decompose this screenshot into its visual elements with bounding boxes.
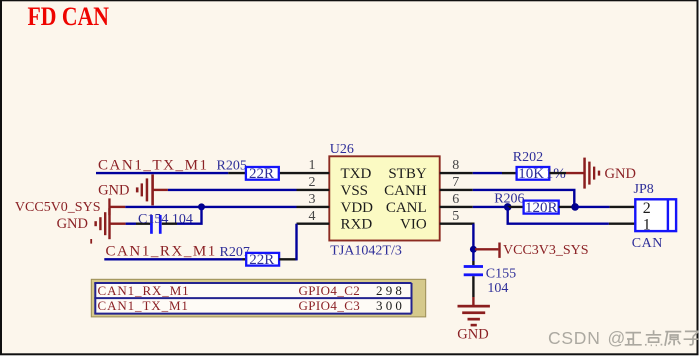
wire VCC5V0_SYS to VDD (red part) xyxy=(110,206,125,208)
svg-text:VSS: VSS xyxy=(341,183,369,199)
svg-text:2: 2 xyxy=(309,175,316,190)
watermark glyph yuan xyxy=(665,332,681,346)
svg-text:CSDN: CSDN xyxy=(548,328,601,348)
wire GND to C154 (blue part) xyxy=(126,222,136,224)
R206 right lead xyxy=(559,206,575,208)
R202 left lead xyxy=(502,172,517,174)
JP8 pin 1 stub xyxy=(609,222,635,224)
wire STBY to R202 (blue part) xyxy=(473,172,502,174)
svg-text:GND: GND xyxy=(605,166,636,182)
resistor R207 body xyxy=(246,253,279,266)
svg-text:FD CAN: FD CAN xyxy=(28,2,110,31)
svg-text:VCC5V0_SYS: VCC5V0_SYS xyxy=(15,200,101,215)
svg-text:CAN1_RX_M1: CAN1_RX_M1 xyxy=(106,243,217,259)
power port VCC3V3_SYS bar xyxy=(498,243,500,258)
pin 5 stub xyxy=(440,222,475,224)
wire C155 to GND (red part) xyxy=(472,297,474,305)
R202 right lead xyxy=(549,172,566,174)
R206 left lead xyxy=(508,206,524,208)
connector JP8 body xyxy=(635,199,676,231)
svg-text:5: 5 xyxy=(452,209,459,224)
wire junction down to C155 xyxy=(472,249,474,261)
pin table white rows xyxy=(95,283,411,314)
svg-text:1: 1 xyxy=(643,217,651,234)
pin 7 stub xyxy=(440,189,473,191)
capacitor C154 right lead xyxy=(162,222,177,224)
svg-text:CAN1_RX_M1: CAN1_RX_M1 xyxy=(98,283,190,298)
wire CANL down and right to JP8 pin1 xyxy=(508,207,609,224)
R205 left lead xyxy=(228,172,246,174)
watermark glyph dian xyxy=(645,330,662,345)
watermark glyph zi xyxy=(684,331,699,345)
wire R207 up to RXD pin4 xyxy=(295,224,297,261)
svg-text:2: 2 xyxy=(643,200,651,217)
ground symbol GND (C154) xyxy=(94,208,110,239)
wire VIO down to junction xyxy=(472,224,474,250)
wire R202 to GND (red part) xyxy=(566,172,584,174)
power port VCC5V0_SYS bar xyxy=(108,198,110,215)
svg-text:4: 4 xyxy=(309,209,316,224)
svg-text:104: 104 xyxy=(487,281,508,296)
R207 right lead xyxy=(279,258,296,260)
svg-text:10K: 10K xyxy=(518,166,544,182)
op-amp U26 body (TJA1042T/3 transceiver) xyxy=(329,156,439,240)
resistor R202 body xyxy=(517,167,550,180)
resistor R206 body xyxy=(524,201,559,214)
svg-text:8: 8 xyxy=(452,158,459,173)
ground symbol GND (R202) xyxy=(583,158,600,189)
svg-text:STBY: STBY xyxy=(388,166,427,182)
svg-text:22R: 22R xyxy=(249,252,274,268)
svg-text:U26: U26 xyxy=(330,142,354,157)
svg-text:GPIO4_C2: GPIO4_C2 xyxy=(299,283,361,298)
capacitor C155 bottom lead xyxy=(472,276,474,297)
svg-text:GND: GND xyxy=(98,183,129,199)
svg-text:VCC3V3_SYS: VCC3V3_SYS xyxy=(503,243,589,258)
node junction CANL / R206 left xyxy=(504,203,512,211)
wire CAN1_TX_M1 to R205 xyxy=(96,172,228,174)
pin 2 stub xyxy=(297,189,330,191)
svg-text:C155: C155 xyxy=(486,267,516,282)
pin table border lines xyxy=(94,283,411,314)
svg-text:120R: 120R xyxy=(525,200,558,216)
wire CANL to junction xyxy=(473,206,508,208)
wire GND to VSS (red part) xyxy=(153,189,168,191)
node junction on VDD net xyxy=(198,203,205,210)
pin 6 stub xyxy=(440,206,473,208)
svg-text:TXD: TXD xyxy=(341,166,372,182)
svg-text:22R: 22R xyxy=(249,166,274,182)
svg-text:VDD: VDD xyxy=(341,200,374,216)
wire GND to VSS (blue part) xyxy=(168,189,297,191)
stray tick mark xyxy=(90,239,92,244)
R207 left lead xyxy=(243,258,247,260)
svg-text:1: 1 xyxy=(309,158,316,173)
wire VCC5V0_SYS to VDD (blue part) xyxy=(125,206,296,208)
wire CAN1_RX_M1 to R207 xyxy=(104,258,242,260)
capacitor C155 top lead xyxy=(472,261,474,265)
pin 1 stub xyxy=(279,172,330,174)
wire C154 to VDD junction xyxy=(177,206,202,224)
capacitor C155 plates xyxy=(464,265,483,276)
svg-text:JP8: JP8 xyxy=(634,182,654,197)
svg-text:3: 3 xyxy=(309,192,316,207)
node junction VIO net xyxy=(470,246,477,253)
pin 4 stub xyxy=(297,222,330,224)
ground symbol GND (C155) xyxy=(458,305,490,327)
capacitor C154 plates xyxy=(150,215,161,234)
watermark glyph zheng xyxy=(625,333,642,345)
svg-text:6: 6 xyxy=(452,192,459,207)
wire CANH right and down xyxy=(473,190,575,207)
wire GND to C154 (red part) xyxy=(110,222,126,224)
svg-text:CAN1_TX_M1: CAN1_TX_M1 xyxy=(98,157,209,173)
JP8 pin 2 stub xyxy=(610,206,636,208)
svg-text:GND: GND xyxy=(57,216,88,232)
pin table shadow box xyxy=(91,279,425,317)
pin 3 stub xyxy=(297,206,330,208)
resistor R205 body xyxy=(246,167,279,180)
svg-text:300: 300 xyxy=(376,298,405,313)
node junction CANH / R206 right xyxy=(571,203,579,211)
svg-text:GPIO4_C3: GPIO4_C3 xyxy=(299,298,361,313)
svg-text:R202: R202 xyxy=(513,150,543,165)
svg-text:298: 298 xyxy=(376,283,405,298)
wire junction to VCC3V3_SYS (red) xyxy=(475,248,498,250)
ground symbol GND (VSS pin2) xyxy=(136,174,154,205)
svg-text:TJA1042T/3: TJA1042T/3 xyxy=(330,243,402,258)
capacitor C154 left lead xyxy=(136,222,150,224)
svg-text:RXD: RXD xyxy=(341,217,373,233)
svg-text:CAN1_TX_M1: CAN1_TX_M1 xyxy=(98,298,189,313)
wire junction to JP8 pin2 (blue part) xyxy=(575,206,610,208)
svg-text:CANH: CANH xyxy=(384,183,427,199)
svg-text:GND: GND xyxy=(457,327,488,343)
svg-text:CAN: CAN xyxy=(632,236,663,251)
svg-text:R205: R205 xyxy=(217,159,247,174)
svg-text:VIO: VIO xyxy=(400,217,427,233)
svg-text:7: 7 xyxy=(452,175,459,190)
pin 8 stub xyxy=(440,172,473,174)
svg-text:@: @ xyxy=(608,328,626,348)
svg-text:CANL: CANL xyxy=(386,200,427,216)
svg-text:R206: R206 xyxy=(494,192,524,207)
